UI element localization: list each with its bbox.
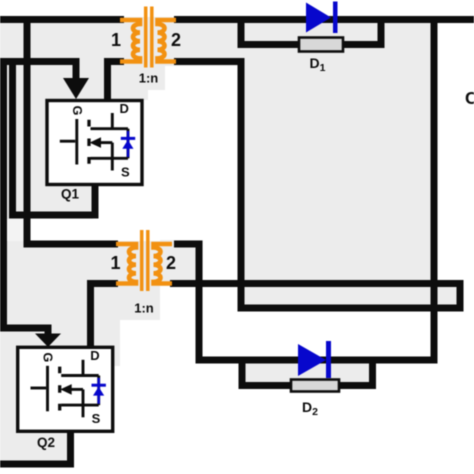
svg-text:2: 2 bbox=[166, 253, 176, 273]
svg-text:1:n: 1:n bbox=[134, 301, 154, 316]
svg-text:Q2: Q2 bbox=[37, 435, 55, 450]
svg-text:2: 2 bbox=[171, 30, 181, 50]
svg-text:1:n: 1:n bbox=[139, 71, 159, 86]
svg-text:C: C bbox=[465, 88, 474, 108]
svg-text:1: 1 bbox=[110, 253, 120, 273]
svg-text:Q1: Q1 bbox=[61, 187, 80, 202]
svg-text:1: 1 bbox=[111, 30, 121, 50]
